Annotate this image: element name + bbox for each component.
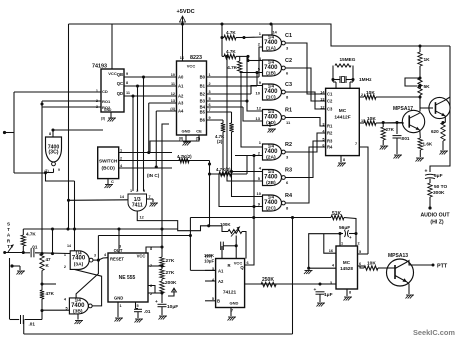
svg-text:C3: C3 [285, 82, 292, 88]
svg-text:(3B): (3B) [73, 308, 83, 314]
svg-text:(2C): (2C) [266, 206, 276, 212]
svg-text:GND: GND [230, 301, 239, 306]
svg-text:4.7K(2): 4.7K(2) [216, 167, 231, 172]
svg-text:3: 3 [322, 123, 324, 127]
svg-text:11: 11 [126, 91, 130, 95]
svg-text:VCC: VCC [108, 71, 117, 76]
svg-text:2: 2 [64, 265, 66, 269]
svg-text:7400: 7400 [264, 40, 278, 46]
svg-text:GND: GND [182, 129, 191, 134]
svg-text:B5: B5 [200, 110, 206, 115]
svg-text:51K: 51K [332, 211, 342, 217]
svg-text:8: 8 [150, 247, 152, 251]
svg-text:50 TO: 50 TO [434, 184, 448, 190]
svg-text:+5VDC: +5VDC [177, 9, 195, 15]
svg-text:CD: CD [102, 89, 108, 94]
svg-text:VCC: VCC [137, 254, 146, 259]
svg-text:R3: R3 [327, 139, 333, 144]
svg-text:12: 12 [171, 92, 175, 96]
svg-text:4.7K: 4.7K [226, 30, 236, 35]
svg-text:C2: C2 [327, 99, 333, 104]
svg-text:(1C): (1C) [266, 95, 276, 101]
svg-text:3: 3 [209, 90, 211, 94]
svg-text:B3: B3 [200, 99, 206, 104]
svg-text:12: 12 [140, 216, 144, 220]
svg-text:RO1: RO1 [102, 99, 111, 104]
svg-text:SWITCH: SWITCH [99, 159, 118, 164]
svg-text:VCC: VCC [187, 64, 196, 69]
svg-text:7400: 7400 [264, 200, 278, 206]
svg-text:12: 12 [320, 106, 324, 110]
svg-text:16: 16 [180, 56, 184, 60]
svg-text:10K: 10K [366, 90, 375, 96]
svg-text:6: 6 [322, 144, 324, 148]
svg-text:(3C): (3C) [48, 150, 58, 156]
svg-text:GND: GND [114, 296, 123, 301]
svg-text:(3A): (3A) [74, 261, 84, 267]
svg-text:7411: 7411 [132, 202, 143, 208]
svg-text:R3: R3 [285, 168, 292, 174]
svg-text:7: 7 [355, 142, 357, 146]
svg-text:5: 5 [143, 189, 145, 193]
svg-text:4.7K: 4.7K [227, 65, 237, 70]
svg-text:(2B): (2B) [266, 180, 276, 186]
svg-text:1: 1 [209, 73, 211, 77]
svg-text:.01: .01 [29, 322, 36, 327]
svg-text:(1B): (1B) [266, 71, 276, 77]
svg-text:7400: 7400 [71, 303, 85, 309]
svg-text:R2: R2 [285, 142, 292, 148]
svg-text:14528: 14528 [340, 266, 353, 271]
svg-text:A1: A1 [218, 269, 224, 274]
svg-text:1: 1 [341, 242, 343, 246]
svg-text:R: R [227, 263, 230, 268]
svg-text:SeekIC.com: SeekIC.com [413, 328, 455, 337]
svg-text:3: 3 [119, 245, 121, 249]
svg-text:1: 1 [130, 189, 132, 193]
svg-text:10μF: 10μF [167, 304, 178, 310]
svg-text:(3): (3) [101, 117, 105, 121]
svg-text:200K: 200K [165, 280, 177, 286]
svg-text:9: 9 [209, 116, 211, 120]
svg-text:10: 10 [256, 91, 261, 96]
svg-text:15MEG: 15MEG [340, 57, 356, 62]
svg-text:2: 2 [358, 242, 360, 246]
svg-text:4.7K: 4.7K [26, 232, 36, 237]
svg-text:250K: 250K [262, 277, 274, 283]
svg-text:B: B [217, 299, 220, 304]
svg-text:7400: 7400 [264, 114, 278, 120]
svg-text:7400: 7400 [264, 149, 278, 155]
svg-text:QC: QC [117, 81, 123, 86]
svg-text:MPSA13: MPSA13 [388, 253, 408, 259]
svg-text:(HI Z): (HI Z) [430, 220, 444, 226]
svg-text:11: 11 [171, 82, 175, 86]
svg-text:5: 5 [209, 97, 211, 101]
svg-text:7400: 7400 [264, 65, 278, 71]
svg-text:7400: 7400 [264, 89, 278, 95]
svg-text:10: 10 [257, 191, 262, 196]
svg-text:6: 6 [209, 103, 211, 107]
svg-text:100K: 100K [220, 222, 231, 227]
svg-text:B1: B1 [200, 84, 206, 89]
svg-text:4.7K: 4.7K [226, 49, 236, 54]
svg-text:10: 10 [171, 73, 175, 77]
svg-text:AUDIO OUT: AUDIO OUT [420, 213, 450, 219]
svg-text:5: 5 [359, 250, 361, 254]
svg-text:8223: 8223 [190, 55, 202, 61]
svg-text:B6: B6 [200, 118, 206, 123]
svg-text:R2: R2 [327, 131, 333, 136]
svg-text:9: 9 [58, 168, 60, 172]
svg-text:R4: R4 [327, 145, 333, 150]
svg-text:A1: A1 [178, 84, 184, 89]
svg-text:5μF: 5μF [434, 173, 443, 179]
svg-text:1: 1 [120, 304, 122, 308]
svg-text:C1: C1 [285, 33, 292, 39]
svg-text:7400: 7400 [264, 174, 278, 180]
svg-text:27K: 27K [166, 270, 175, 276]
svg-text:5K: 5K [424, 84, 431, 90]
svg-text:12: 12 [257, 106, 262, 111]
svg-text:1MHz: 1MHz [359, 77, 372, 83]
svg-text:.001: .001 [401, 136, 410, 141]
svg-text:+: + [349, 235, 352, 240]
svg-text:R1: R1 [327, 124, 333, 129]
svg-text:74121: 74121 [223, 290, 237, 296]
svg-text:R4: R4 [285, 193, 293, 199]
svg-text:2: 2 [361, 93, 363, 97]
svg-text:10K: 10K [367, 261, 376, 267]
svg-text:8: 8 [343, 158, 345, 162]
svg-text:74193: 74193 [92, 64, 107, 70]
svg-text:6: 6 [359, 262, 361, 266]
svg-text:C2: C2 [285, 58, 292, 64]
svg-text:A0: A0 [178, 75, 184, 80]
svg-text:1μF: 1μF [324, 292, 333, 298]
svg-text:MC: MC [339, 108, 347, 114]
svg-text:4.7K(2): 4.7K(2) [177, 154, 192, 159]
svg-text:A2: A2 [178, 94, 184, 99]
svg-text:27K: 27K [166, 258, 175, 264]
svg-text:10μF: 10μF [204, 259, 214, 264]
svg-text:8: 8 [126, 81, 128, 85]
svg-text:MC: MC [343, 260, 351, 265]
svg-text:RESET: RESET [110, 257, 124, 262]
svg-text:47K: 47K [46, 291, 55, 296]
svg-text:8: 8 [49, 132, 51, 136]
svg-text:(1D): (1D) [266, 120, 276, 126]
svg-text:(IN C): (IN C) [147, 173, 160, 178]
svg-text:C: C [111, 179, 114, 184]
svg-text:C1: C1 [327, 92, 333, 97]
svg-text:(BCD): (BCD) [102, 166, 116, 171]
svg-text:B2: B2 [200, 92, 206, 97]
svg-text:7: 7 [149, 195, 151, 199]
svg-text:300K: 300K [433, 190, 445, 196]
svg-text:27K: 27K [386, 127, 395, 132]
svg-text:R1: R1 [285, 108, 292, 114]
svg-text:.01: .01 [31, 245, 38, 250]
svg-text:B0: B0 [200, 75, 206, 80]
svg-text:2: 2 [120, 157, 122, 161]
svg-text:.01: .01 [144, 309, 151, 314]
svg-text:NE 555: NE 555 [119, 275, 136, 281]
svg-text:1: 1 [120, 149, 122, 153]
svg-text:7400: 7400 [72, 256, 86, 262]
svg-text:+: + [425, 169, 428, 175]
svg-text:5: 5 [137, 304, 139, 308]
svg-text:1: 1 [64, 253, 66, 257]
svg-text:QD: QD [117, 91, 123, 96]
svg-text:13: 13 [320, 98, 324, 102]
svg-text:A2: A2 [218, 279, 224, 284]
svg-text:S: S [7, 222, 10, 227]
svg-text:PTT: PTT [437, 264, 448, 270]
svg-text:MPSA17: MPSA17 [393, 106, 413, 112]
svg-text:T: T [7, 244, 10, 249]
svg-text:14412F: 14412F [334, 115, 350, 121]
svg-text:1.6K: 1.6K [423, 142, 433, 147]
svg-text:1K: 1K [424, 57, 431, 63]
svg-text:14: 14 [67, 244, 71, 248]
svg-text:GND: GND [104, 108, 112, 112]
svg-text:10K: 10K [367, 116, 376, 122]
svg-text:(1A): (1A) [266, 46, 276, 52]
svg-text:QB: QB [117, 72, 123, 77]
svg-text:8: 8 [349, 291, 351, 295]
svg-text:(2): (2) [217, 139, 223, 144]
svg-text:T: T [7, 227, 10, 232]
svg-text:620: 620 [431, 129, 439, 134]
svg-text:13: 13 [256, 116, 261, 121]
svg-text:(2A): (2A) [266, 155, 276, 161]
svg-text:5: 5 [322, 138, 324, 142]
svg-text:A4: A4 [178, 109, 184, 114]
svg-text:47: 47 [46, 257, 52, 262]
svg-text:16: 16 [329, 249, 333, 253]
svg-text:C3: C3 [327, 107, 333, 112]
svg-text:2: 2 [136, 189, 138, 193]
svg-text:2: 2 [209, 82, 211, 86]
svg-text:9: 9 [126, 72, 128, 76]
svg-text:3: 3 [94, 254, 96, 258]
svg-text:OUT: OUT [114, 248, 123, 253]
svg-text:100K: 100K [204, 253, 214, 258]
svg-text:A3: A3 [178, 101, 184, 106]
svg-text:CE: CE [196, 129, 202, 134]
svg-text:6: 6 [247, 261, 249, 265]
svg-text:7: 7 [209, 108, 211, 112]
